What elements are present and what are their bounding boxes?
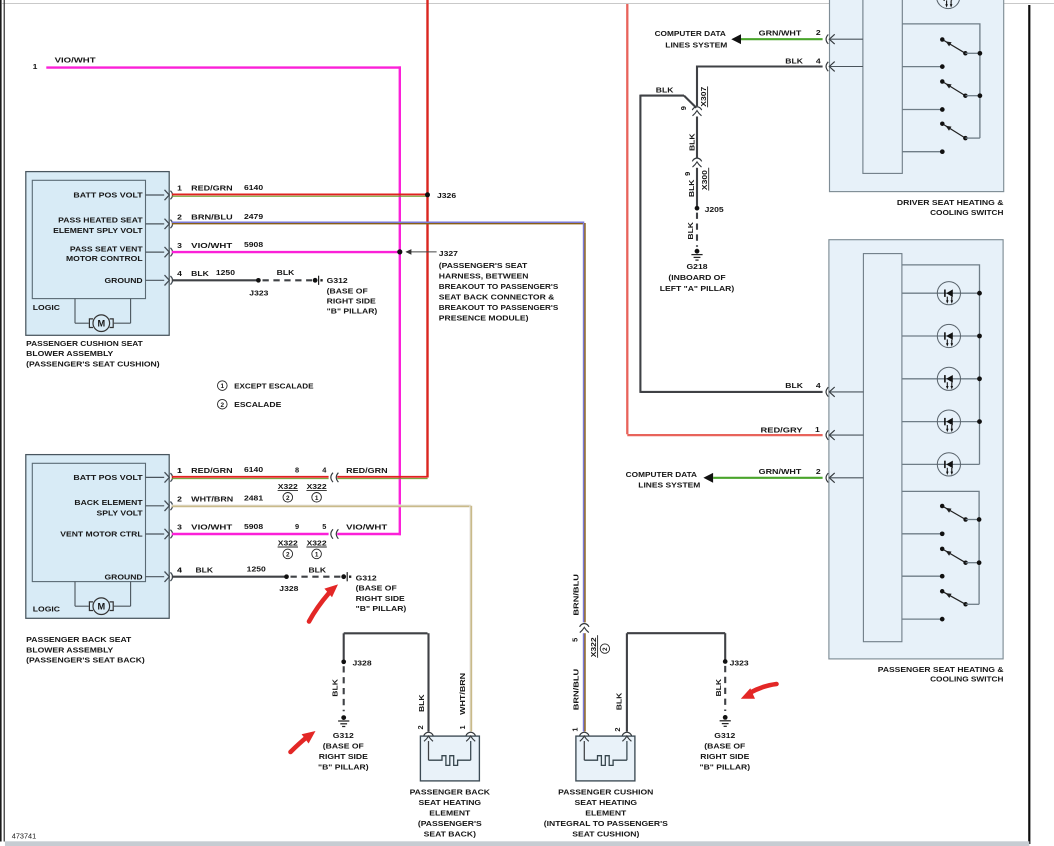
svg-text:5908: 5908 [244, 240, 263, 249]
svg-text:X322: X322 [278, 539, 298, 548]
svg-text:1: 1 [177, 466, 182, 475]
svg-text:BLK: BLK [688, 133, 697, 151]
svg-text:BLK: BLK [309, 565, 327, 574]
svg-text:2: 2 [816, 28, 821, 37]
svg-text:2481: 2481 [244, 494, 263, 503]
svg-text:G312: G312 [333, 731, 354, 740]
svg-text:G312: G312 [327, 276, 348, 285]
svg-text:LINES SYSTEM: LINES SYSTEM [665, 41, 727, 50]
svg-text:9: 9 [679, 106, 688, 110]
svg-text:SEAT BACK CONNECTOR &: SEAT BACK CONNECTOR & [439, 293, 555, 302]
svg-text:3: 3 [177, 523, 182, 532]
svg-text:VIO/WHT: VIO/WHT [191, 523, 233, 532]
svg-text:BLK: BLK [417, 694, 426, 712]
svg-text:2: 2 [602, 647, 609, 651]
svg-text:1250: 1250 [216, 268, 235, 277]
svg-text:6140: 6140 [244, 465, 263, 474]
svg-text:"B" PILLAR): "B" PILLAR) [327, 307, 378, 316]
svg-text:J205: J205 [705, 205, 724, 214]
svg-text:(INTEGRAL TO PASSENGER'S: (INTEGRAL TO PASSENGER'S [544, 819, 668, 828]
svg-text:3: 3 [177, 241, 182, 250]
svg-text:2: 2 [221, 402, 225, 409]
svg-text:5908: 5908 [244, 522, 263, 531]
svg-text:2: 2 [286, 552, 290, 559]
svg-text:M: M [97, 319, 105, 329]
svg-text:PASSENGER BACK SEAT: PASSENGER BACK SEAT [26, 635, 132, 644]
svg-text:1: 1 [177, 184, 182, 193]
svg-text:BLK: BLK [191, 269, 209, 278]
svg-text:BLK: BLK [614, 692, 623, 710]
svg-text:G218: G218 [687, 262, 708, 271]
svg-text:(PASSENGER'S: (PASSENGER'S [418, 819, 482, 828]
svg-text:X300: X300 [700, 170, 709, 190]
svg-text:GROUND: GROUND [105, 276, 144, 285]
svg-text:BLK: BLK [686, 221, 695, 239]
svg-text:RIGHT SIDE: RIGHT SIDE [700, 752, 749, 761]
svg-text:BLK: BLK [656, 86, 674, 95]
svg-text:SEAT CUSHION): SEAT CUSHION) [572, 829, 640, 838]
svg-text:LEFT "A" PILLAR): LEFT "A" PILLAR) [660, 284, 735, 293]
svg-text:BLK: BLK [196, 565, 214, 574]
svg-text:PASSENGER CUSHION SEAT: PASSENGER CUSHION SEAT [26, 339, 143, 348]
svg-text:2: 2 [816, 467, 821, 476]
svg-text:BACK ELEMENT: BACK ELEMENT [74, 498, 143, 507]
svg-text:G312: G312 [356, 573, 377, 582]
svg-text:"B" PILLAR): "B" PILLAR) [700, 763, 751, 772]
svg-text:BATT POS VOLT: BATT POS VOLT [73, 473, 143, 482]
svg-text:(BASE OF: (BASE OF [323, 742, 365, 751]
svg-text:1: 1 [221, 383, 225, 390]
svg-text:ELEMENT: ELEMENT [429, 809, 471, 818]
svg-text:1: 1 [458, 725, 467, 729]
svg-text:RED/GRN: RED/GRN [191, 184, 232, 193]
svg-text:BLK: BLK [714, 678, 723, 696]
svg-text:2479: 2479 [244, 212, 263, 221]
svg-text:GROUND: GROUND [105, 572, 144, 581]
svg-text:BLOWER ASSEMBLY: BLOWER ASSEMBLY [26, 645, 113, 654]
svg-text:PASSENGER SEAT HEATING &: PASSENGER SEAT HEATING & [878, 665, 1004, 674]
svg-text:M: M [97, 602, 105, 612]
svg-text:2: 2 [416, 725, 425, 729]
svg-text:"B" PILLAR): "B" PILLAR) [356, 604, 407, 613]
svg-text:BLOWER ASSEMBLY: BLOWER ASSEMBLY [26, 349, 113, 358]
svg-text:SEAT HEATING: SEAT HEATING [419, 798, 482, 807]
svg-text:LOGIC: LOGIC [33, 605, 61, 614]
svg-text:MOTOR CONTROL: MOTOR CONTROL [66, 254, 143, 263]
svg-text:SPLY VOLT: SPLY VOLT [97, 508, 144, 517]
svg-text:ELEMENT: ELEMENT [585, 809, 627, 818]
svg-text:PASS HEATED SEAT: PASS HEATED SEAT [58, 215, 143, 224]
svg-text:ESCALADE: ESCALADE [234, 400, 281, 409]
svg-text:COMPUTER DATA: COMPUTER DATA [655, 29, 727, 38]
svg-text:(PASSENGER'S SEAT CUSHION): (PASSENGER'S SEAT CUSHION) [26, 360, 160, 369]
svg-text:PASSENGER CUSHION: PASSENGER CUSHION [558, 788, 653, 797]
svg-text:RIGHT SIDE: RIGHT SIDE [327, 297, 376, 306]
svg-text:BREAKOUT TO PASSENGER'S: BREAKOUT TO PASSENGER'S [439, 303, 559, 312]
svg-text:J327: J327 [439, 249, 458, 258]
svg-text:(BASE OF: (BASE OF [327, 286, 369, 295]
svg-text:2: 2 [177, 495, 182, 504]
svg-text:VENT MOTOR CTRL: VENT MOTOR CTRL [60, 530, 143, 539]
svg-text:J328: J328 [353, 658, 372, 667]
svg-text:DRIVER SEAT HEATING &: DRIVER SEAT HEATING & [897, 198, 1004, 207]
svg-text:9: 9 [683, 172, 692, 176]
svg-text:9: 9 [295, 522, 299, 531]
svg-text:X322: X322 [278, 482, 298, 491]
svg-text:COOLING SWITCH: COOLING SWITCH [930, 208, 1003, 217]
svg-text:WHT/BRN: WHT/BRN [458, 673, 467, 715]
svg-text:1: 1 [815, 425, 820, 434]
svg-text:PASSENGER BACK: PASSENGER BACK [410, 788, 491, 797]
svg-text:X322: X322 [589, 637, 598, 657]
svg-text:GRN/WHT: GRN/WHT [759, 467, 802, 476]
svg-text:RIGHT SIDE: RIGHT SIDE [356, 594, 405, 603]
svg-text:EXCEPT ESCALADE: EXCEPT ESCALADE [234, 382, 313, 391]
svg-text:LOGIC: LOGIC [33, 303, 61, 312]
svg-text:BRN/BLU: BRN/BLU [571, 669, 580, 711]
svg-text:COOLING SWITCH: COOLING SWITCH [930, 675, 1003, 684]
svg-text:BLK: BLK [785, 57, 803, 66]
svg-text:VIO/WHT: VIO/WHT [191, 241, 233, 250]
svg-text:G312: G312 [714, 731, 735, 740]
svg-text:1: 1 [571, 727, 580, 731]
svg-text:ELEMENT SPLY VOLT: ELEMENT SPLY VOLT [53, 226, 143, 235]
svg-text:5: 5 [322, 522, 326, 531]
svg-text:(PASSENGER'S SEAT: (PASSENGER'S SEAT [439, 261, 528, 270]
svg-text:BREAKOUT TO PASSENGER'S: BREAKOUT TO PASSENGER'S [439, 282, 559, 291]
svg-text:RED/GRN: RED/GRN [191, 466, 232, 475]
svg-text:J326: J326 [437, 191, 456, 200]
svg-text:2: 2 [613, 727, 622, 731]
svg-text:X322: X322 [307, 482, 327, 491]
svg-text:(BASE OF: (BASE OF [704, 742, 746, 751]
svg-text:2: 2 [177, 213, 182, 222]
svg-text:"B" PILLAR): "B" PILLAR) [318, 763, 369, 772]
svg-text:5: 5 [571, 638, 580, 642]
svg-text:VIO/WHT: VIO/WHT [55, 55, 97, 64]
svg-text:1250: 1250 [247, 565, 266, 574]
svg-text:COMPUTER DATA: COMPUTER DATA [626, 470, 698, 479]
svg-text:VIO/WHT: VIO/WHT [346, 522, 388, 531]
svg-text:(BASE OF: (BASE OF [356, 584, 398, 593]
svg-text:6140: 6140 [244, 183, 263, 192]
svg-text:1: 1 [315, 495, 319, 502]
svg-text:BLK: BLK [785, 381, 803, 390]
svg-text:J328: J328 [279, 584, 298, 593]
svg-text:BLK: BLK [277, 268, 295, 277]
svg-text:X322: X322 [307, 539, 327, 548]
svg-text:X307: X307 [699, 87, 708, 107]
svg-text:WHT/BRN: WHT/BRN [191, 495, 233, 504]
svg-text:J323: J323 [730, 658, 749, 667]
svg-text:1: 1 [315, 552, 319, 559]
svg-text:SEAT BACK): SEAT BACK) [424, 829, 477, 838]
svg-text:RED/GRY: RED/GRY [761, 425, 803, 434]
svg-text:GRN/WHT: GRN/WHT [759, 28, 802, 37]
svg-text:473741: 473741 [12, 831, 36, 840]
svg-text:BRN/BLU: BRN/BLU [571, 574, 580, 616]
svg-text:2: 2 [286, 495, 290, 502]
svg-text:PRESENCE MODULE): PRESENCE MODULE) [439, 314, 529, 323]
svg-text:SEAT HEATING: SEAT HEATING [575, 798, 638, 807]
svg-text:RED/GRN: RED/GRN [346, 466, 387, 475]
svg-text:BATT POS VOLT: BATT POS VOLT [73, 191, 143, 200]
svg-text:LINES SYSTEM: LINES SYSTEM [638, 480, 700, 489]
svg-text:PASS SEAT VENT: PASS SEAT VENT [70, 245, 143, 254]
svg-text:1: 1 [33, 62, 38, 71]
svg-text:J323: J323 [249, 289, 268, 298]
svg-text:8: 8 [295, 465, 299, 474]
svg-text:BRN/BLU: BRN/BLU [191, 213, 233, 222]
svg-text:BLK: BLK [687, 179, 696, 197]
svg-text:(PASSENGER'S SEAT BACK): (PASSENGER'S SEAT BACK) [26, 656, 145, 665]
svg-text:HARNESS, BETWEEN: HARNESS, BETWEEN [439, 272, 529, 281]
svg-text:BLK: BLK [331, 678, 340, 696]
svg-text:(INBOARD OF: (INBOARD OF [668, 273, 726, 282]
svg-text:RIGHT SIDE: RIGHT SIDE [319, 752, 368, 761]
